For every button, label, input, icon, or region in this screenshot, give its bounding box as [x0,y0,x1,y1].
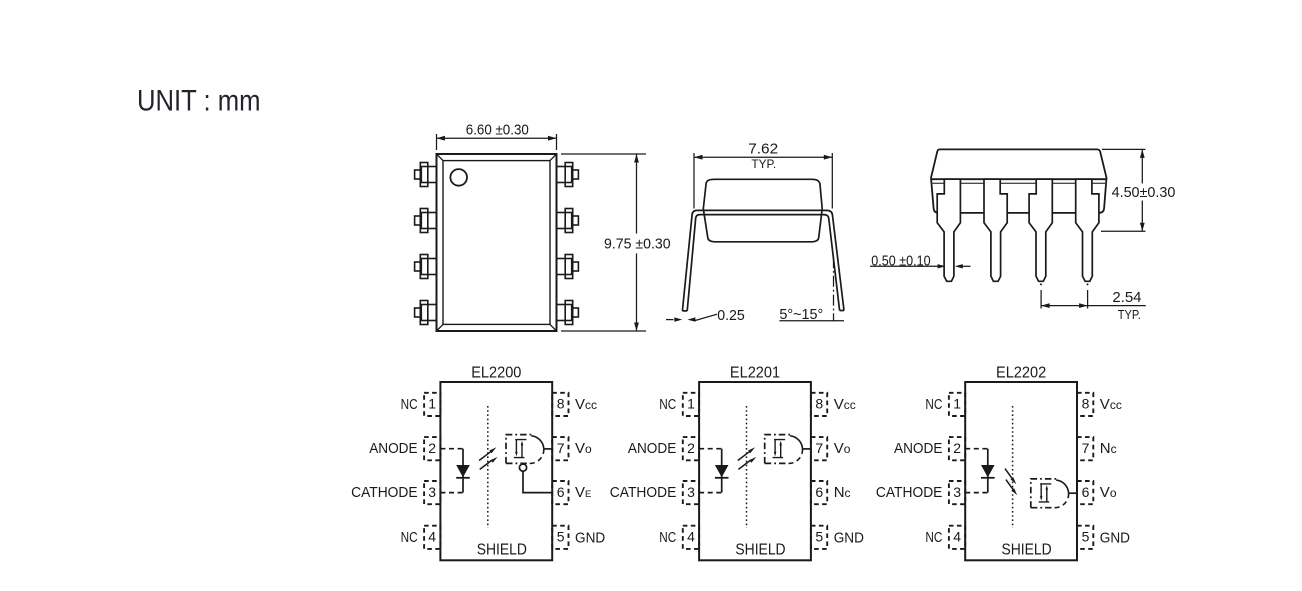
svg-text:6: 6 [1082,484,1090,500]
EL2201 shield line [746,406,748,528]
svg-text:EL2202: EL2202 [996,365,1046,382]
svg-text:3: 3 [953,484,961,500]
top view pin 2 (left) [415,209,437,233]
svg-text:2: 2 [428,440,436,456]
dimension 4.50 +/-0.30 [1101,149,1146,231]
svg-text:6: 6 [815,484,823,500]
EL2200 pin 5 box [552,526,568,549]
EL2202 light arrows [1005,469,1013,480]
body corner bevels [437,154,557,331]
EL2202 LED anode wire (pin 2) [965,448,988,450]
EL2202 pin 3 box [949,481,965,504]
EL2200 LED anode wire (pin 2) [440,448,463,450]
svg-text:Vo: Vo [834,440,851,457]
EL2201 pin 7 box [811,437,827,460]
svg-text:EL2200: EL2200 [471,365,521,382]
EL2200 light arrows [479,451,491,460]
EL2202 LED D1 [987,449,989,493]
EL2201 light arrows [738,451,750,460]
EL2201 photo-detector U1 [765,435,791,464]
svg-text:SHIELD: SHIELD [735,542,785,559]
svg-text:GND: GND [1100,530,1130,547]
svg-text:CATHODE: CATHODE [351,484,418,501]
svg-text:SHIELD: SHIELD [477,542,527,559]
top view pin 7 (right) [557,209,579,233]
svg-text:8: 8 [815,396,823,412]
EL2200 pin 2 box [424,437,440,460]
svg-text:6.60 ±0.30: 6.60 ±0.30 [466,122,529,139]
EL2201 pin 1 box [683,393,699,416]
EL2201 pin 4 box [683,526,699,549]
dimension 7.62 TYP [694,153,832,209]
svg-text:4: 4 [687,529,695,545]
svg-text:CATHODE: CATHODE [876,484,943,501]
svg-text:3: 3 [428,484,436,500]
svg-text:3: 3 [687,484,695,500]
svg-text:4.50±0.30: 4.50±0.30 [1112,184,1176,201]
svg-text:GND: GND [575,530,605,547]
EL2202 pin 6 box [1077,481,1093,504]
EL2201 pin 6 box [811,481,827,504]
EL2200 emitter node circle [519,464,526,471]
front view lead 1 [937,179,960,281]
EL2200 body [440,382,552,560]
mold seam lines [931,178,1106,180]
svg-text:NC: NC [659,396,676,413]
top view package body [437,154,557,331]
svg-text:4: 4 [953,529,961,545]
svg-text:2: 2 [687,440,695,456]
lead tip center dots [1040,283,1042,285]
EL2202 pin 5 box [1077,526,1093,549]
EL2201 LED anode wire (pin 2) [699,448,722,450]
top view pin 1 (left) [415,163,437,187]
svg-text:8: 8 [1082,396,1090,412]
EL2200 output wire [544,448,552,450]
lead tips [682,310,844,312]
EL2202 LED cathode wire (pin 3) [965,492,988,494]
svg-text:ANODE: ANODE [894,440,942,457]
svg-text:1: 1 [687,396,695,412]
EL2201 LED cathode wire (pin 3) [699,492,722,494]
svg-text:UNIT : mm: UNIT : mm [137,85,261,118]
dimension 9.75 +/-0.30 [561,154,646,331]
svg-text:NC: NC [925,396,942,413]
EL2201 pin 5 box [811,526,827,549]
svg-text:CATHODE: CATHODE [610,484,677,501]
svg-text:Vcc: Vcc [1100,396,1122,413]
EL2200 pin 1 box [424,393,440,416]
svg-text:Nc: Nc [1100,440,1117,457]
svg-text:7.62: 7.62 [748,141,778,158]
front view lead 3 [1029,179,1052,281]
svg-text:Vo: Vo [1100,484,1117,501]
svg-text:1: 1 [953,396,961,412]
svg-text:5: 5 [557,529,565,545]
EL2201 body [699,382,811,560]
EL2200 pin 6 box [552,481,568,504]
front view lead 4 [1076,179,1099,281]
EL2201 pin 8 box [811,393,827,416]
svg-text:NC: NC [401,529,418,546]
svg-text:SHIELD: SHIELD [1002,542,1052,559]
svg-text:5: 5 [815,529,823,545]
front view package body [931,149,1107,213]
svg-text:ANODE: ANODE [369,440,417,457]
EL2202 pin 2 box [949,437,965,460]
EL2202 pin 8 box [1077,393,1093,416]
top view pin 5 (right) [557,301,579,325]
top view pin 4 (left) [415,301,437,325]
EL2201 LED D1 [721,449,723,493]
svg-text:NC: NC [659,529,676,546]
EL2200 shield line [487,406,489,528]
top view pin 3 (left) [415,255,437,279]
svg-text:NC: NC [401,396,418,413]
side view package body [703,179,822,242]
svg-text:NC: NC [925,529,942,546]
svg-text:7: 7 [1082,440,1090,456]
svg-text:4: 4 [428,529,436,545]
EL2202 pin 4 box [949,526,965,549]
svg-text:ANODE: ANODE [628,440,676,457]
EL2200 VE wire to pin 6 [523,471,552,492]
side view leads (outer edge) [682,210,844,311]
EL2201 output wire [803,448,811,450]
EL2202 pin 1 box [949,393,965,416]
svg-text:9.75 ±0.30: 9.75 ±0.30 [604,235,671,252]
svg-text:Vcc: Vcc [575,396,597,413]
svg-text:6: 6 [557,484,565,500]
pin1 index circle [450,169,467,186]
svg-text:7: 7 [815,440,823,456]
svg-text:GND: GND [834,530,864,547]
EL2200 pin 3 box [424,481,440,504]
EL2202 shield line [1012,406,1014,528]
EL2200 LED D1 [462,449,464,493]
EL2200 pin 7 box [552,437,568,460]
EL2200 pin 8 box [552,393,568,416]
svg-text:5: 5 [1082,529,1090,545]
top view pin 8 (right) [557,163,579,187]
front view lead 2 [984,179,1007,281]
EL2201 pin 2 box [683,437,699,460]
svg-text:0.25: 0.25 [717,307,745,324]
svg-text:EL2201: EL2201 [730,365,780,382]
dimension 0.25 lead thickness [666,319,674,321]
EL2202 output wire [1069,492,1077,494]
svg-text:7: 7 [557,440,565,456]
svg-text:2: 2 [953,440,961,456]
EL2202 photo-detector U1 [1031,479,1057,508]
EL2202 body [965,382,1077,560]
EL2201 pin 3 box [683,481,699,504]
svg-text:TYP.: TYP. [751,159,776,171]
EL2200 photo-detector U1 [506,435,532,464]
side view leads (inner edge) [687,215,839,311]
svg-text:2.54: 2.54 [1112,289,1141,306]
svg-text:Nc: Nc [834,484,851,501]
dimension 6.60 +/-0.30 [437,134,557,150]
EL2200 pin 4 box [424,526,440,549]
top view pin 6 (right) [557,255,579,279]
svg-text:TYP.: TYP. [1118,308,1141,322]
svg-text:8: 8 [557,396,565,412]
dimension 2.54 TYP lead pitch [1041,290,1088,309]
EL2200 LED cathode wire (pin 3) [440,492,463,494]
svg-text:Vo: Vo [575,440,592,457]
EL2202 pin 7 box [1077,437,1093,460]
svg-text:1: 1 [428,396,436,412]
svg-text:Vcc: Vcc [834,396,856,413]
